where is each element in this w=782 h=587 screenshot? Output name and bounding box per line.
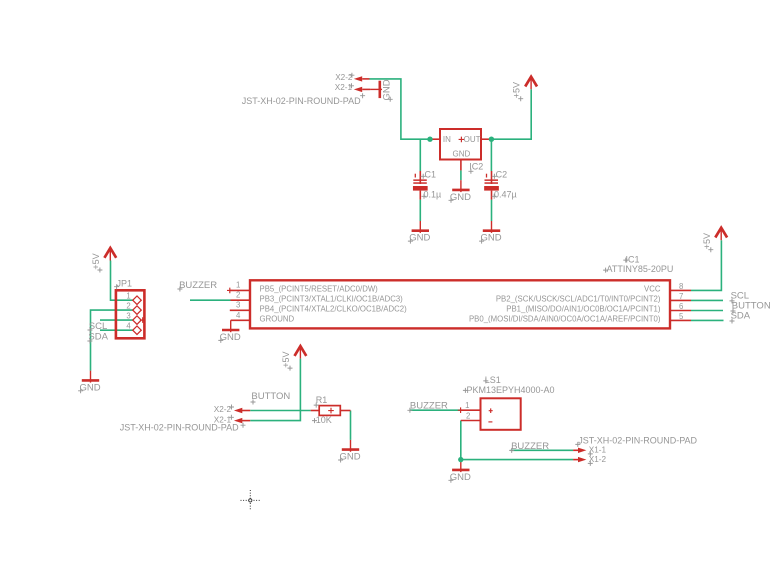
svg-text:R1: R1: [316, 395, 328, 405]
svg-text:BUZZER: BUZZER: [179, 280, 217, 291]
svg-text:PKM13EPYH4000-A0: PKM13EPYH4000-A0: [467, 385, 555, 395]
svg-text:IN: IN: [443, 135, 451, 144]
svg-text:X1-2: X1-2: [589, 455, 607, 464]
svg-text:2: 2: [466, 411, 470, 420]
svg-text:PB5_(PCINT5/RESET/ADC0/DW): PB5_(PCINT5/RESET/ADC0/DW): [260, 285, 379, 294]
svg-text:PB2_(SCK/USCK/SCL/ADC1/T0/INT0: PB2_(SCK/USCK/SCL/ADC1/T0/INT0/PCINT2): [496, 294, 661, 303]
svg-text:GROUND: GROUND: [260, 315, 295, 324]
svg-text:JST-XH-02-PIN-ROUND-PAD: JST-XH-02-PIN-ROUND-PAD: [578, 436, 697, 446]
svg-text:LS1: LS1: [485, 375, 501, 385]
svg-text:0.47µ: 0.47µ: [494, 190, 517, 200]
svg-text:8: 8: [679, 282, 683, 291]
svg-text:4: 4: [236, 311, 241, 320]
svg-text:C2: C2: [496, 170, 508, 180]
svg-text:PB0_(MOSI/DI/SDA/AIN0/OC0A/OC1: PB0_(MOSI/DI/SDA/AIN0/OC0A/OC1A/AREF/PCI…: [469, 314, 661, 323]
svg-text:JST-XH-02-PIN-ROUND-PAD: JST-XH-02-PIN-ROUND-PAD: [242, 96, 361, 106]
svg-text:10K: 10K: [316, 415, 332, 425]
svg-text:0.1µ: 0.1µ: [424, 190, 442, 200]
svg-text:BUZZER: BUZZER: [511, 441, 549, 452]
svg-text:IC1: IC1: [626, 255, 640, 265]
svg-text:7: 7: [679, 292, 683, 301]
svg-text:X2-2: X2-2: [335, 73, 353, 82]
svg-text:VCC: VCC: [644, 284, 661, 293]
svg-text:BUZZER: BUZZER: [410, 401, 448, 412]
svg-text:PB1_(MISO/DO/AIN1/OC0B/OC1A/PC: PB1_(MISO/DO/AIN1/OC0B/OC1A/PCINT1): [506, 304, 661, 313]
svg-text:OUT: OUT: [464, 135, 481, 144]
svg-text:IC2: IC2: [469, 162, 483, 172]
svg-text:6: 6: [679, 302, 683, 311]
svg-text:X2-2: X2-2: [214, 405, 232, 414]
svg-text:PB3_(PCINT3/XTAL1/CLKI/OC1B/AD: PB3_(PCINT3/XTAL1/CLKI/OC1B/ADC3): [260, 295, 404, 304]
svg-text:1: 1: [465, 401, 469, 410]
svg-text:1: 1: [236, 281, 240, 290]
svg-text:5: 5: [679, 312, 684, 321]
svg-text:4: 4: [126, 321, 131, 330]
svg-text:X2-1: X2-1: [335, 83, 353, 92]
svg-text:GND: GND: [453, 150, 471, 159]
svg-text:3: 3: [236, 301, 240, 310]
svg-text:BUTTON: BUTTON: [251, 391, 290, 402]
svg-text:ATTINY85-20PU: ATTINY85-20PU: [607, 264, 674, 274]
svg-text:SDA: SDA: [731, 311, 751, 322]
svg-text:JST-XH-02-PIN-ROUND-PAD: JST-XH-02-PIN-ROUND-PAD: [120, 423, 239, 433]
svg-text:1: 1: [126, 292, 130, 301]
svg-text:2: 2: [236, 291, 240, 300]
svg-text:C1: C1: [425, 170, 437, 180]
svg-text:X1-1: X1-1: [589, 445, 607, 454]
svg-text:2: 2: [126, 301, 130, 310]
svg-text:3: 3: [126, 311, 130, 320]
svg-text:PB4_(PCINT4/XTAL2/CLKO/OC1B/AD: PB4_(PCINT4/XTAL2/CLKO/OC1B/ADC2): [260, 305, 408, 314]
